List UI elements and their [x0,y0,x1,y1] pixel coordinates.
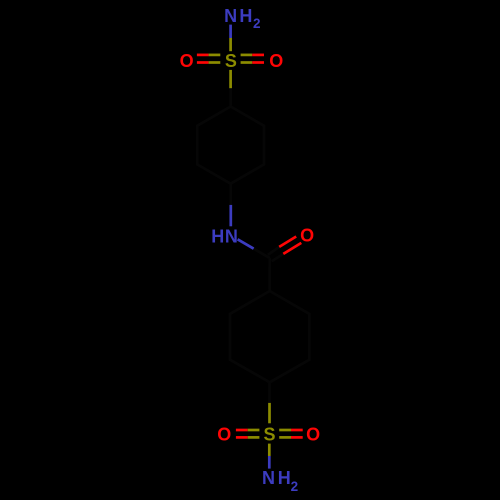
svg-text:2: 2 [253,16,261,31]
double bond C7=O3 (C half, near-black, line 2) [272,254,284,261]
bond C7-C8 (carbon bond, near-black) [268,258,271,291]
svg-text:N: N [262,468,275,488]
double bond S1=O2 (O half, red, line 1) [252,54,264,57]
bond N1-S1 (N half, blue) [229,25,232,38]
double bond S1=O1 (S half, olive, line 2) [209,61,221,64]
svg-text:2: 2 [291,479,299,494]
double bond S1=O1 (O half, red, line 2) [197,61,209,64]
bond S1-C1 (S half, olive) [229,70,232,88]
double bond S2=O4 (O half, red, line 1) [236,429,248,432]
svg-text:O: O [306,424,320,444]
svg-text:S: S [264,424,276,444]
bond S2-N3 (N half, blue) [268,456,271,469]
bond S1-C1 (C half, near-black) [229,88,232,106]
double bond S1=O1 (S half, olive, line 1) [209,54,221,57]
atom label N2 (amide HN) [211,226,238,246]
svg-text:O: O [300,225,314,245]
svg-text:O: O [217,424,231,444]
double bond C7=O3 (O half, red, line 2) [283,243,301,254]
double bond S2=O5 (S half, olive, line 1) [279,429,291,432]
double bond S2=O5 (S half, olive, line 2) [279,436,291,439]
bond N1-S1 (S half, olive) [229,38,232,51]
svg-text:H: H [278,468,291,488]
double bond S1=O1 (O half, red, line 1) [197,54,209,57]
svg-text:H: H [211,226,224,246]
double bond S2=O5 (O half, red, line 2) [291,436,303,439]
benzene ring 1 (carbon bonds, near-black on black) [197,107,264,184]
double bond C7=O3 (C half, near-black, line 1) [268,247,279,255]
bond S2-N3 (S half, olive) [268,444,271,456]
bond C4-N2 (C half, near-black) [229,184,232,205]
benzene ring 2 (carbon bonds, near-black on black) [230,291,309,382]
bond C4-N2 (N half, blue) [229,205,232,226]
svg-text:O: O [180,51,194,71]
double bond S2=O4 (O half, red, line 2) [236,436,248,439]
svg-text:N: N [225,226,238,246]
double bond S2=O4 (S half, olive, line 2) [248,436,260,439]
double bond S1=O2 (S half, olive, line 1) [241,54,253,57]
atom label N1 (top NH2 nitrogen) [224,6,260,31]
svg-text:O: O [269,51,283,71]
svg-text:H: H [239,6,252,26]
double bond S1=O2 (S half, olive, line 2) [241,61,253,64]
bond C11-S2 (S half, olive) [268,403,271,423]
svg-text:N: N [224,6,237,26]
double bond S2=O4 (S half, olive, line 1) [248,429,260,432]
bond N2-C7 (C half, near-black diagonal) [254,249,270,258]
double bond C7=O3 (O half, red, line 1) [279,237,296,247]
double bond S1=O2 (O half, red, line 2) [252,61,264,64]
atom label N3 (bottom NH2 nitrogen) [262,468,298,494]
double bond S2=O5 (O half, red, line 1) [291,429,303,432]
bond C11-S2 (C half, near-black) [268,382,271,403]
bond N2-C7 (N half, blue diagonal) [238,239,254,248]
svg-text:S: S [225,51,237,71]
